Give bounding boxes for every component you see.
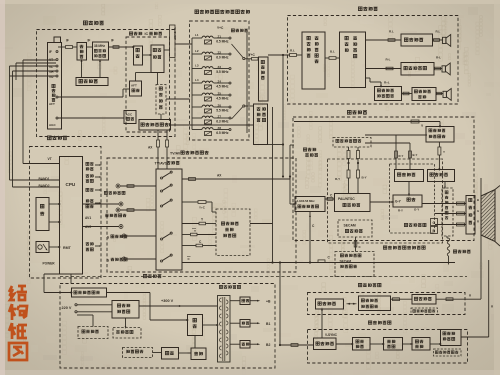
sync separator input wire — [279, 263, 281, 346]
svg-text:POWER: POWER — [43, 262, 56, 266]
svg-text:+300 V: +300 V — [161, 299, 174, 303]
svg-text:B2: B2 — [266, 343, 270, 347]
filter row Z5 4.5 MHz — [192, 94, 202, 96]
resistor below luma effect — [438, 147, 441, 155]
SECAM decoder dashed block — [338, 220, 372, 237]
switching transformer — [219, 285, 222, 288]
svg-text:Y: Y — [194, 229, 196, 233]
surround processor block — [340, 32, 366, 88]
svg-text:38 MHz: 38 MHz — [94, 44, 105, 48]
regulation protect dashed block — [113, 328, 141, 339]
label: video IC chip — [303, 148, 306, 151]
dashed region box: IF IC chip — [126, 37, 170, 132]
wire sync det down to ident — [157, 73, 159, 85]
bus to separator resistor — [318, 260, 325, 263]
wire field output right to yoke — [436, 298, 481, 300]
wires power supply internals — [92, 315, 94, 327]
title char JIE (red) — [9, 286, 27, 300]
svg-text:AV1: AV1 — [85, 216, 91, 220]
svg-text:6.5 MHz: 6.5 MHz — [216, 131, 229, 135]
R-Y B-Y resistors pairs — [347, 151, 350, 159]
wire phase down to matrix — [408, 182, 410, 196]
overcurrent protect dashed block — [123, 348, 153, 358]
wire to line output transistor — [403, 343, 413, 345]
label: video channel — [347, 110, 351, 114]
luma chroma separator dashed box — [216, 209, 250, 256]
sound power amp block — [401, 34, 433, 46]
speaker 1 — [443, 37, 446, 43]
svg-text:TV/AV: TV/AV — [170, 152, 181, 156]
field DC control dashed block — [411, 308, 438, 315]
svg-text:IF: IF — [88, 39, 91, 43]
wire receiver to CPU — [49, 246, 60, 248]
luma to mixer wire — [444, 182, 446, 189]
38MHz SAW filter block — [93, 42, 109, 60]
rectifier output 1 — [230, 300, 240, 302]
svg-text:B-Y: B-Y — [413, 153, 418, 157]
filter row Z7 6.3 MHz — [192, 117, 202, 119]
TV AV switch IC box — [156, 169, 182, 270]
svg-text:R-L: R-L — [436, 56, 441, 60]
label: sound channel — [358, 7, 362, 11]
system switch block — [76, 78, 108, 86]
color difference output dashed box — [333, 138, 371, 148]
POWER wire down to supply — [70, 274, 72, 284]
input terminal S chroma — [122, 257, 126, 261]
wire to line osc — [336, 343, 353, 345]
label character signal — [453, 250, 456, 253]
wire ident to FM det — [160, 114, 162, 120]
wire to flyback — [430, 343, 441, 345]
bridge rectifier filter block — [112, 301, 139, 319]
wire AFT from tuner — [58, 96, 123, 98]
Y+C output resistor — [198, 201, 206, 204]
phase circuit block — [395, 170, 424, 182]
dashed region box: remote control system — [30, 147, 102, 279]
PAL NTSC decoder block — [335, 194, 371, 212]
title char GOU (red) — [9, 304, 27, 320]
dashed inner box: video IC chip — [328, 159, 443, 243]
svg-text:R+L: R+L — [384, 81, 390, 85]
svg-text:PAL/NTSC: PAL/NTSC — [338, 197, 355, 201]
svg-text:L3: L3 — [195, 64, 199, 68]
keyboard block — [36, 198, 49, 231]
AFT detector block — [130, 81, 142, 96]
top luma wire with resistor — [294, 121, 440, 123]
sync detector block — [151, 45, 164, 73]
wire color diff to luma effect — [365, 134, 427, 136]
CPU output labels right side — [86, 162, 89, 165]
svg-text:AV2: AV2 — [85, 225, 91, 229]
svg-text:R: R — [477, 220, 479, 224]
tuner block — [48, 43, 62, 130]
label: remote control system — [47, 136, 51, 140]
svg-text:Y+C: Y+C — [249, 53, 256, 57]
vertical wire 290 AX to filter — [289, 145, 291, 204]
switch contacts inside — [161, 177, 163, 179]
wire contact2 to 2nd sound — [245, 105, 254, 107]
wire C SECAM down — [355, 237, 357, 252]
EW correction dashed block — [434, 349, 462, 356]
field output stage block — [412, 295, 436, 305]
svg-text:IF: IF — [111, 39, 114, 43]
volume control block — [302, 32, 325, 89]
filter row Z6 5.5 MHz — [192, 106, 202, 108]
svg-text:R.L: R.L — [290, 49, 295, 53]
selector bus wire — [246, 32, 248, 133]
svg-text:TV/AVS: TV/AVS — [155, 162, 168, 166]
label: system selector — [231, 29, 234, 32]
svg-text:CPU: CPU — [66, 182, 76, 187]
svg-text:+B: +B — [266, 299, 271, 303]
AV1 AV2 wires to terminals — [83, 203, 119, 205]
RGB wires with resistors to video amp — [422, 203, 466, 205]
filter left bus wire — [191, 38, 193, 130]
label 2D color decoder — [404, 223, 407, 226]
svg-text:AGC: AGC — [126, 113, 134, 117]
wire 2nd sound output up-right — [268, 54, 290, 56]
sampling block — [191, 348, 206, 360]
Y+C+SIF vertical box — [170, 25, 176, 58]
speaker 3 — [443, 91, 446, 97]
svg-text:IF: IF — [49, 50, 52, 54]
wire color diff to phase R-Y — [365, 142, 410, 144]
rectifier output 3 — [230, 343, 240, 345]
title char KUANG (red) — [9, 323, 27, 339]
wires from separator to video box — [250, 223, 273, 225]
svg-text:B.L: B.L — [330, 50, 335, 54]
svg-text:S: S — [107, 236, 109, 240]
svg-text:Y+C+SIF: Y+C+SIF — [173, 28, 177, 41]
input terminal ext audio — [116, 184, 120, 188]
power on standby control block — [72, 288, 107, 297]
second sound demod block — [254, 104, 268, 145]
line output transistor block — [412, 338, 430, 351]
second sound IF block — [259, 57, 269, 101]
dashed region box: common channel — [37, 30, 176, 137]
svg-text:AFT: AFT — [49, 102, 55, 106]
flyback transformer block — [441, 330, 462, 346]
rectifier output 2 — [230, 322, 240, 324]
Y bar resistor — [191, 233, 198, 236]
IF amp block — [134, 46, 143, 65]
keyboard wires to CPU — [49, 203, 60, 205]
wire PAL to matrix — [370, 201, 393, 203]
degauss circuit dashed block — [78, 327, 108, 339]
input terminal AV video — [116, 208, 120, 212]
field sawtooth forming block — [359, 296, 391, 311]
svg-text:B1: B1 — [266, 322, 270, 326]
label: common channel — [83, 21, 87, 25]
svg-text:4.5 MHz: 4.5 MHz — [216, 85, 229, 89]
surround amp block — [401, 63, 434, 76]
svg-text:Y: Y — [443, 150, 445, 154]
remote receiver box — [36, 242, 49, 253]
dashed region box: field scan — [308, 293, 466, 315]
vertical wire 272 down to bus — [272, 107, 274, 263]
special SECAM separator dashed block — [335, 252, 374, 277]
svg-text:6.5 MHz: 6.5 MHz — [216, 40, 229, 44]
bottom bus wire — [182, 262, 455, 264]
svg-text:R-Y: R-Y — [335, 177, 340, 181]
wires system switch up arrows — [81, 61, 83, 78]
wire ident to filter box — [166, 98, 190, 100]
label: IF IC chip — [129, 32, 132, 35]
dashed region box: video channel — [293, 117, 474, 241]
svg-text:G: G — [477, 209, 479, 213]
field oscillator block — [316, 299, 344, 309]
svg-text:L1: L1 — [195, 33, 199, 37]
svg-text:B: B — [477, 198, 479, 202]
horizontal dashed separator — [60, 276, 467, 278]
svg-text:R-Y: R-Y — [398, 209, 403, 213]
svg-text:L4: L4 — [195, 78, 199, 82]
line driver block — [384, 338, 403, 351]
svg-text:IF: IF — [66, 39, 69, 43]
CPU block — [60, 157, 83, 275]
wire sync det to YCS box — [164, 49, 170, 51]
wire FM det to second sound demod — [171, 124, 254, 126]
svg-text:R-L: R-L — [386, 58, 391, 62]
svg-text:4.5 MHz: 4.5 MHz — [216, 97, 229, 101]
subwoofer amp block — [412, 88, 436, 101]
wire IF amp to sync det — [143, 54, 152, 56]
station ident block — [156, 85, 166, 115]
svg-text:Y+C: Y+C — [199, 206, 206, 210]
character signal coil and arrow — [447, 238, 450, 256]
wire AGC from tuner — [58, 117, 124, 119]
G-Y matrix block — [393, 195, 422, 207]
subwoofer forming circuit block — [375, 87, 402, 101]
dashed region box: sound channel — [288, 16, 459, 105]
wire sawtooth to output stage resistor — [391, 298, 413, 300]
speaker 2 — [442, 66, 445, 72]
wire mixer down to coil — [446, 236, 448, 238]
wire vertical feed down — [282, 55, 284, 145]
svg-text:RMT: RMT — [63, 246, 72, 250]
svg-text:L2: L2 — [195, 49, 199, 53]
sync separator block — [314, 338, 337, 350]
label line scan channel — [368, 321, 371, 324]
label switching power supply — [143, 274, 146, 277]
svg-text:IC: IC — [145, 32, 149, 36]
label: video luma chroma channel bottom — [383, 246, 386, 249]
svg-text:6.0 MHz: 6.0 MHz — [216, 56, 229, 60]
selector output contacts — [243, 57, 245, 59]
label: picture and second sound separation circuit — [195, 10, 199, 14]
V-SYNC wire — [321, 309, 323, 338]
CRT feed vertical wire — [480, 238, 482, 299]
filter row Z4 4.5 MHz — [192, 82, 202, 84]
regulator block — [162, 348, 179, 360]
wire AFT det up — [135, 73, 137, 82]
title char TU (red) — [9, 343, 27, 360]
sound FM detector block — [139, 120, 171, 131]
filter row Z8 6.5 MHz — [192, 129, 202, 131]
svg-text:V-SYNC: V-SYNC — [325, 333, 338, 337]
svg-text:S: S — [107, 259, 109, 263]
filter row Z1 6.5 MHz — [192, 37, 202, 39]
dashed region box: power supply — [60, 284, 275, 369]
filter row Z2 6.0 MHz — [192, 53, 202, 55]
vertical B-Y wire to phase — [409, 143, 411, 170]
svg-text:AGC: AGC — [49, 123, 57, 127]
svg-text:B-Y: B-Y — [362, 176, 367, 180]
vertical R-Y wire to phase — [395, 135, 397, 170]
luma process block — [428, 170, 455, 182]
luma effect improvement block — [426, 127, 454, 143]
flyback HV wire — [461, 336, 489, 338]
wire C up from bus to filter — [309, 212, 311, 263]
wire former to subwoofer amp — [402, 93, 413, 95]
svg-text:G-Y: G-Y — [395, 200, 402, 204]
svg-text:G-Y: G-Y — [414, 208, 419, 212]
speaker 3 wire — [436, 93, 443, 95]
svg-text:5.5 MHz: 5.5 MHz — [216, 70, 229, 74]
CRT picture tube — [481, 190, 495, 242]
svg-text:AFT: AFT — [131, 84, 137, 88]
color mixer dashed vertical box — [442, 188, 453, 236]
svg-text:R.L: R.L — [436, 30, 441, 34]
svg-text:R-Y: R-Y — [399, 154, 404, 158]
filter row Z3 5.5 MHz — [192, 68, 202, 70]
svg-text:6.3 MHz: 6.3 MHz — [216, 120, 229, 124]
selector switch arms — [232, 44, 244, 58]
bandpass filter block — [295, 197, 325, 212]
label field scan channel — [358, 283, 361, 286]
video output amp block — [466, 196, 475, 235]
dashed region box: picture and second sound separation — [190, 21, 250, 140]
svg-text:VT: VT — [48, 157, 52, 161]
input terminal S luma — [122, 234, 126, 238]
svg-text:5.5 MHz: 5.5 MHz — [216, 109, 229, 113]
IF preamp block — [77, 43, 87, 61]
svg-text:220 V: 220 V — [62, 306, 72, 310]
svg-text:SECAM: SECAM — [344, 224, 356, 228]
AGC detector block — [124, 111, 136, 124]
svg-text:4.43/3.58 MHz: 4.43/3.58 MHz — [297, 199, 316, 203]
driver block — [188, 315, 203, 336]
tuner control left wires — [23, 59, 56, 61]
G B small boxes — [431, 219, 438, 226]
dashed region box: TV AV switching — [107, 158, 296, 272]
svg-text:R.L: R.L — [389, 30, 394, 34]
wire to line driver — [370, 343, 384, 345]
svg-text:Y+C: Y+C — [217, 26, 224, 30]
dashed region box: line scan — [308, 330, 468, 364]
junction dots scan — [279, 344, 281, 346]
bidirectional arrows — [347, 303, 351, 305]
line oscillator block — [353, 338, 371, 351]
tuner vertical label — [52, 84, 55, 87]
2D color decode dashed box — [390, 164, 435, 233]
